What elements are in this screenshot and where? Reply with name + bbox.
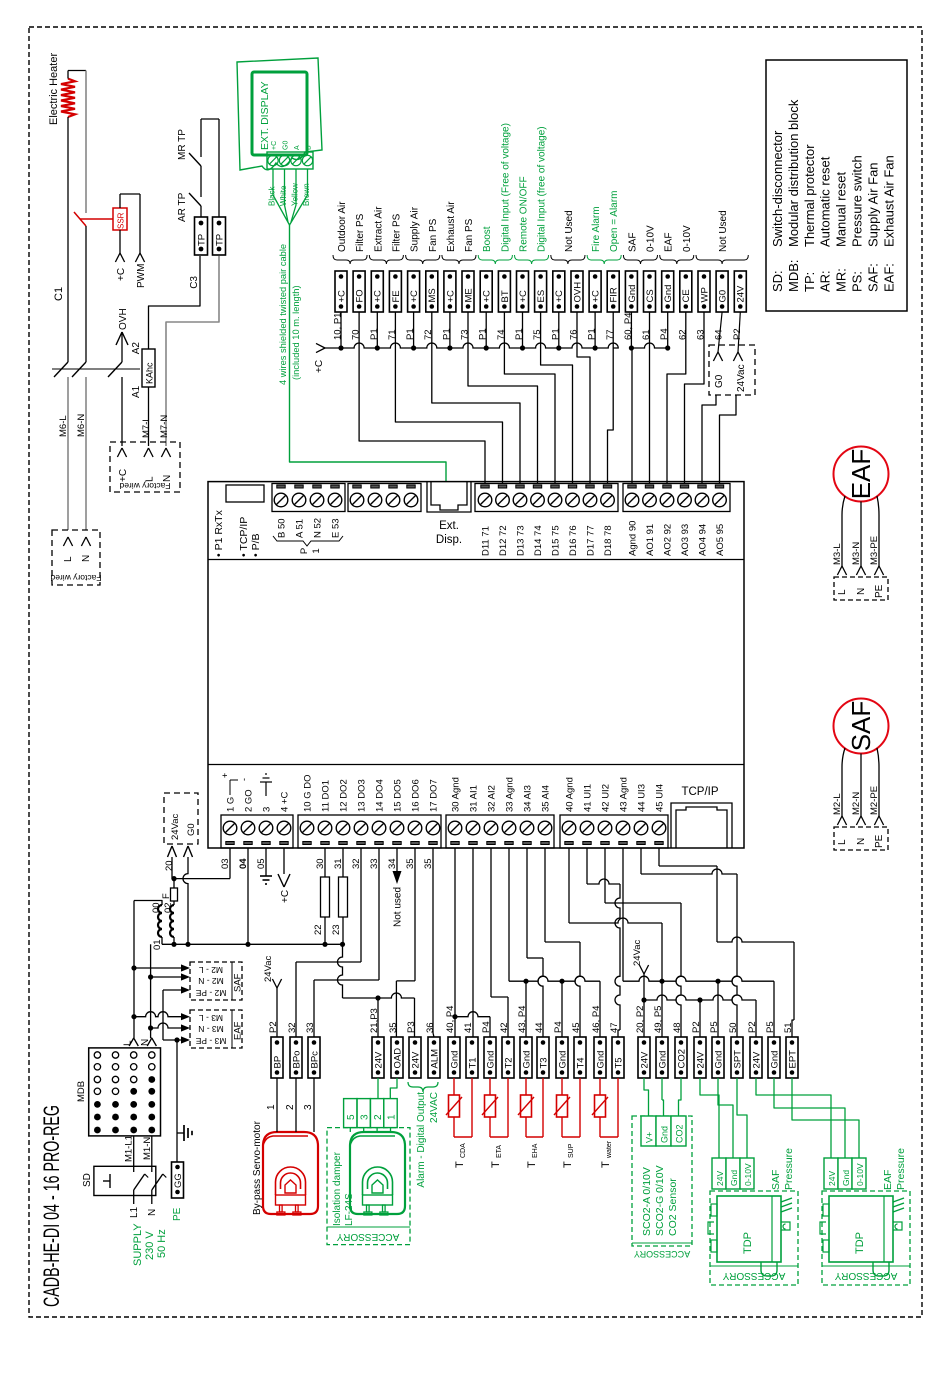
svg-text:CADB-HE-DI 04 - 16 PRO-REG: CADB-HE-DI 04 - 16 PRO-REG [39, 1105, 64, 1307]
svg-text:M3 - L: M3 - L [199, 1013, 223, 1023]
svg-text:32 AI2: 32 AI2 [487, 785, 498, 812]
svg-text:Pressure: Pressure [783, 1148, 795, 1190]
bottom terminal blocks [271, 1037, 283, 1078]
svg-text:-: - [239, 778, 249, 781]
svg-text:M7-N: M7-N [159, 415, 170, 438]
sensor wires to controller inputs [359, 312, 485, 483]
svg-text:TDP: TDP [742, 1232, 754, 1254]
svg-text:N: N [147, 1209, 158, 1216]
wire AI2 to T2 [490, 848, 492, 997]
svg-text:Gnd: Gnd [627, 285, 638, 303]
svg-text:Supply Air Fan: Supply Air Fan [865, 162, 880, 247]
AR TP switch [200, 206, 202, 217]
svg-text:ME: ME [463, 288, 474, 302]
contactor coil KAhc A1 A2 [142, 349, 155, 387]
svg-text:Thermal protector: Thermal protector [802, 144, 817, 247]
wire 32 DO3 to BPo [360, 848, 362, 962]
SAF connection dashed box [834, 827, 888, 850]
svg-text:T5: T5 [613, 1057, 624, 1068]
ground mark near 3 [265, 782, 267, 796]
svg-text:CO2: CO2 [675, 1124, 685, 1143]
svg-text:3: 3 [360, 1114, 371, 1120]
svg-text:ACCESSORY: ACCESSORY [834, 1270, 897, 1281]
svg-text:2: 2 [373, 1114, 384, 1120]
Ext Disp RJ connector [427, 482, 471, 512]
contactor blades [54, 362, 68, 377]
svg-text:61: 61 [641, 329, 652, 340]
wire 4+C arrow [283, 848, 285, 874]
bus 2GO [162, 943, 343, 945]
svg-text:• TCP/IP: • TCP/IP [238, 517, 250, 557]
svg-text:15 DO5: 15 DO5 [393, 779, 404, 812]
svg-text:Open = Alarm: Open = Alarm [609, 191, 620, 252]
svg-text:Not used: Not used [393, 887, 404, 927]
universal input strip 40-45 [560, 815, 668, 848]
svg-text:Gnd: Gnd [449, 1051, 460, 1069]
svg-text:+C: +C [445, 290, 456, 303]
svg-text:SAF:: SAF: [865, 263, 880, 292]
svg-text:M7-L: M7-L [141, 416, 152, 438]
svg-text:MR TP: MR TP [177, 129, 188, 160]
svg-text:B 50: B 50 [277, 518, 288, 538]
svg-text:C3: C3 [189, 276, 200, 289]
svg-text:MDB:: MDB: [786, 260, 801, 293]
svg-text:T: T [526, 1161, 538, 1168]
svg-text:Manual reset: Manual reset [834, 171, 849, 247]
svg-text:72: 72 [423, 329, 434, 340]
svg-text:GG: GG [173, 1173, 184, 1188]
svg-text:1: 1 [386, 1114, 397, 1120]
svg-text:(included 10 m. length): (included 10 m. length) [291, 285, 301, 380]
svg-text:33 Agnd: 33 Agnd [505, 777, 516, 812]
supply wire ends [133, 1196, 135, 1205]
svg-text:Fan PS: Fan PS [428, 218, 439, 252]
CO2 terminal cells [641, 1116, 656, 1146]
svg-text:63: 63 [696, 329, 707, 340]
svg-text:24V: 24V [736, 285, 747, 303]
analog output strip AO [623, 484, 730, 512]
PE wire to GG [176, 1040, 178, 1162]
svg-text:40 Agnd: 40 Agnd [565, 777, 576, 812]
svg-text:T: T [454, 1161, 466, 1168]
svg-text:M2-PE: M2-PE [869, 786, 880, 815]
svg-text:• P/B: • P/B [250, 533, 262, 557]
EAF pressure sensor TDP [822, 1191, 910, 1285]
bus 1G [174, 878, 230, 880]
status LED window [226, 485, 264, 502]
Gnd bus 60 P4 [631, 343, 667, 348]
svg-text:Gnd: Gnd [657, 1051, 668, 1069]
svg-text:4 +C: 4 +C [280, 792, 291, 812]
svg-text:EAF:: EAF: [881, 263, 896, 292]
svg-text:D15 75: D15 75 [551, 525, 562, 556]
SAF motor wires [842, 748, 845, 816]
wire AI1 to T1 [472, 848, 474, 1037]
svg-text:P2: P2 [732, 328, 743, 340]
svg-text:Factory wired: Factory wired [119, 481, 170, 491]
svg-text:EXT. DISPLAY: EXT. DISPLAY [259, 81, 271, 150]
svg-text:• P1 RxTx: • P1 RxTx [213, 509, 225, 557]
svg-text:TDP: TDP [854, 1232, 866, 1254]
svg-text:Gnd: Gnd [660, 1126, 670, 1143]
svg-text:3: 3 [262, 807, 273, 812]
svg-text:30 Agnd: 30 Agnd [451, 777, 462, 812]
svg-text:D12 72: D12 72 [498, 525, 509, 556]
svg-text:Gnd: Gnd [729, 1170, 739, 1186]
svg-text:M1-L1: M1-L1 [124, 1135, 135, 1162]
svg-text:P1: P1 [405, 328, 416, 340]
svg-text:T2: T2 [503, 1057, 514, 1068]
svg-text:SAF: SAF [846, 701, 876, 752]
GG terminal [172, 1162, 184, 1198]
svg-text:EAF: EAF [882, 1170, 894, 1190]
svg-text:M1-N: M1-N [142, 1137, 153, 1160]
isolation damper motor [350, 1132, 405, 1214]
ground symbol on PE [177, 1132, 184, 1134]
analog input strip 30-35 [446, 815, 554, 848]
svg-text:TP:: TP: [802, 272, 817, 292]
svg-text:Extract Air: Extract Air [373, 206, 384, 252]
svg-text:24V: 24V [827, 1171, 837, 1186]
svg-text:T3: T3 [538, 1057, 549, 1068]
svg-text:13 DO3: 13 DO3 [357, 779, 368, 812]
svg-text:Not Used: Not Used [564, 210, 575, 252]
svg-text:24Vac: 24Vac [736, 364, 747, 392]
svg-text:+C: +C [314, 360, 325, 373]
svg-text:M2-N: M2-N [851, 792, 862, 815]
svg-text:ACCESSORY: ACCESSORY [722, 1270, 785, 1281]
wire UI1 to T5 [586, 848, 588, 884]
svg-text:KAhc: KAhc [145, 362, 155, 384]
svg-text:2 GO: 2 GO [244, 789, 255, 812]
svg-text:P1: P1 [587, 328, 598, 340]
svg-text:35 AI4: 35 AI4 [541, 785, 552, 812]
svg-text:71: 71 [387, 329, 398, 340]
svg-text:SAF: SAF [233, 973, 244, 992]
svg-text:Pressure: Pressure [895, 1148, 907, 1190]
L N PE supply rails [133, 901, 135, 1039]
svg-text:EAF: EAF [846, 449, 876, 500]
wire 33 DO4 to BPc [378, 848, 380, 980]
damper wire cells 5 3 2 1 [344, 1099, 357, 1128]
svg-text:60, P4: 60, P4 [623, 313, 634, 340]
SSR switch blade [74, 212, 86, 226]
wire 35 DO6 to OAD [414, 848, 416, 981]
svg-text:Remote ON/OFF: Remote ON/OFF [519, 176, 530, 252]
svg-text:12 DO2: 12 DO2 [339, 779, 350, 812]
wire CS to AO1 [649, 312, 651, 483]
svg-text:N 52: N 52 [313, 518, 324, 538]
comm terminal strip 2 [348, 484, 421, 512]
Agnd 33 rail P4 [508, 848, 510, 981]
svg-text:V+: V+ [645, 1132, 655, 1143]
svg-text:Brown: Brown [302, 183, 311, 206]
svg-text:SD: SD [82, 1173, 93, 1187]
svg-text:4 wires shielded twisted pair: 4 wires shielded twisted pair cable [278, 244, 288, 385]
svg-text:T: T [600, 1161, 612, 1168]
factory wired box (heater aux) [110, 442, 180, 492]
svg-text:Fire Alarm: Fire Alarm [591, 206, 602, 252]
svg-text:20: 20 [164, 860, 175, 871]
TDP1 wires [700, 1078, 719, 1158]
svg-text:EAF: EAF [233, 1021, 244, 1040]
svg-text:24V: 24V [373, 1051, 384, 1069]
TP loop wire [201, 118, 219, 120]
svg-text:Gnd: Gnd [557, 1051, 568, 1069]
top row group labels [333, 255, 367, 264]
svg-text:T1: T1 [467, 1057, 478, 1068]
top sensor terminal blocks row [335, 271, 347, 312]
svg-text:Supply Air: Supply Air [410, 206, 421, 252]
svg-text:Gnd: Gnd [663, 285, 674, 303]
svg-text:Digital Input (Free of voltage: Digital Input (Free of voltage) [500, 123, 511, 252]
SSR control wires +C PWM [119, 194, 121, 208]
svg-text:SD:: SD: [770, 270, 785, 292]
svg-text:Gnd: Gnd [521, 1051, 532, 1069]
svg-text:PS:: PS: [850, 271, 865, 292]
svg-text:M6-L: M6-L [58, 415, 69, 437]
svg-text:Boost: Boost [482, 226, 493, 252]
svg-text:Isolation damper: Isolation damper [332, 1151, 343, 1226]
svg-text:02: 02 [163, 902, 174, 913]
svg-text:AO3 93: AO3 93 [680, 524, 691, 556]
svg-text:73: 73 [460, 329, 471, 340]
svg-text:P3: P3 [406, 1021, 417, 1033]
OVH arrow [121, 332, 123, 362]
svg-text:A 51: A 51 [295, 519, 306, 538]
svg-text:230 V: 230 V [144, 1231, 156, 1260]
damper wires from 24V OAD [377, 1078, 379, 1099]
svg-text:74: 74 [496, 329, 507, 340]
24Vac rail P3 from bus [338, 944, 343, 998]
svg-text:MS: MS [427, 288, 438, 302]
svg-text:M3-N: M3-N [851, 542, 862, 565]
L N labels into MDB [129, 1038, 134, 1046]
svg-text:ACCESSORY: ACCESSORY [336, 1231, 399, 1242]
svg-text:OVH: OVH [572, 282, 583, 303]
svg-text:0-10V: 0-10V [855, 1163, 865, 1186]
svg-text:3: 3 [303, 1104, 314, 1110]
svg-text:AR TP: AR TP [177, 192, 188, 222]
svg-text:P1: P1 [369, 328, 380, 340]
svg-text:AO2 92: AO2 92 [663, 524, 674, 556]
svg-text:50 Hz: 50 Hz [156, 1229, 168, 1258]
svg-text:P1: P1 [478, 328, 489, 340]
svg-text:G0: G0 [283, 141, 290, 150]
svg-text:B: B [306, 145, 313, 150]
svg-text:31 AI1: 31 AI1 [469, 785, 480, 812]
svg-text:ES: ES [536, 290, 547, 303]
svg-text:+: + [220, 773, 230, 778]
svg-text:P1: P1 [550, 328, 561, 340]
svg-text:+C: +C [482, 290, 493, 303]
svg-text:TP: TP [215, 234, 226, 246]
svg-text:AO4 94: AO4 94 [698, 524, 709, 556]
svg-text:24Vac: 24Vac [170, 814, 181, 840]
svg-text:AR:: AR: [818, 270, 833, 292]
svg-text:24V: 24V [751, 1051, 762, 1069]
svg-text:TP: TP [197, 234, 208, 246]
svg-text:M6-N: M6-N [76, 414, 87, 437]
svg-text:D17 77: D17 77 [586, 525, 597, 556]
svg-text:L: L [837, 589, 848, 595]
coil 00 [158, 905, 162, 937]
+C bus wire [340, 312, 342, 348]
EAF connection dashed box [834, 577, 888, 600]
svg-text:A1: A1 [131, 385, 142, 398]
svg-text:Electric Heater: Electric Heater [48, 53, 60, 125]
EAF fan circle [834, 447, 889, 502]
coil 02 [170, 905, 174, 937]
svg-text:N: N [140, 1039, 151, 1046]
svg-text:01: 01 [152, 939, 163, 950]
svg-text:0-10V: 0-10V [646, 225, 657, 252]
svg-text:43 Agnd: 43 Agnd [619, 777, 630, 812]
svg-text:0-10V: 0-10V [682, 225, 693, 252]
wire UI4 to EPT [658, 848, 660, 866]
svg-text:CS: CS [645, 289, 656, 302]
svg-text:+C: +C [116, 268, 127, 281]
digital input strip D11-D18 [475, 484, 618, 512]
svg-text:SPT: SPT [732, 1050, 743, 1069]
svg-text:OAD: OAD [392, 1048, 403, 1069]
svg-text:Gnd: Gnd [769, 1051, 780, 1069]
svg-text:C1: C1 [53, 287, 65, 301]
resistor 22 [324, 848, 326, 877]
svg-text:35: 35 [388, 1022, 399, 1033]
svg-text:2: 2 [285, 1104, 296, 1110]
svg-text:Pressure switch: Pressure switch [850, 155, 865, 247]
svg-text:EHA: EHA [532, 1143, 539, 1158]
svg-text:D14 74: D14 74 [533, 525, 544, 556]
svg-text:WP: WP [699, 287, 710, 302]
svg-text:42 UI2: 42 UI2 [601, 784, 612, 812]
legend box [766, 60, 907, 311]
wire WP to AO3 [685, 312, 705, 483]
svg-text:SUPPLY: SUPPLY [132, 1223, 144, 1266]
svg-text:N: N [856, 838, 867, 845]
svg-text:P1: P1 [441, 328, 452, 340]
EAF supply dashed box [190, 1010, 242, 1048]
svg-text:L: L [837, 839, 848, 845]
svg-text:34 AI3: 34 AI3 [523, 785, 534, 812]
CO2 wires [644, 1078, 649, 1116]
SAF supply dashed box [190, 962, 242, 1000]
svg-text:M3-L: M3-L [832, 543, 843, 565]
svg-text:N: N [162, 475, 173, 482]
svg-text:ALM: ALM [429, 1049, 440, 1069]
wire blade to +C factory box [121, 377, 123, 446]
svg-text:BT: BT [500, 290, 511, 302]
svg-text:D11 71: D11 71 [481, 526, 492, 556]
svg-text:SCO2-G 0/10V: SCO2-G 0/10V [654, 1165, 666, 1236]
svg-text:+C: +C [409, 290, 420, 303]
svg-text:24V: 24V [715, 1171, 725, 1186]
svg-text:MR:: MR: [834, 268, 849, 292]
digital output strip 10-17 [298, 815, 441, 848]
svg-text:24V: 24V [410, 1051, 421, 1069]
G0 24Vac dashed box [709, 345, 755, 395]
svg-text:Factory wired: Factory wired [50, 573, 101, 583]
svg-text:+C: +C [554, 290, 565, 303]
wire 05 ground [265, 848, 267, 876]
svg-text:10, P1: 10, P1 [333, 313, 344, 340]
wire CE to AO2 [667, 312, 686, 483]
svg-text:0-10V: 0-10V [743, 1163, 753, 1186]
gray wire TP to N [166, 256, 219, 446]
svg-text:L1: L1 [129, 1206, 140, 1218]
svg-text:+C: +C [336, 290, 347, 303]
TDP2 wires [756, 1078, 831, 1158]
svg-text:M2 - PE: M2 - PE [195, 988, 226, 998]
svg-text:36: 36 [425, 1022, 436, 1033]
wire UI3 to SPT [640, 848, 642, 874]
svg-text:G0: G0 [718, 290, 729, 303]
svg-text:41 UI1: 41 UI1 [583, 784, 594, 812]
alarm output brace [408, 1082, 438, 1092]
svg-text:Gnd: Gnd [713, 1051, 724, 1069]
MDB to SD wires [133, 1136, 135, 1166]
svg-text:F: F [161, 893, 172, 899]
svg-text:FIR: FIR [609, 287, 620, 302]
svg-text:E 53: E 53 [331, 518, 342, 538]
svg-text:44 UI3: 44 UI3 [637, 784, 648, 812]
svg-text:1: 1 [311, 548, 322, 553]
svg-text:ETA: ETA [496, 1145, 503, 1158]
wire UI2 to CO2 [604, 848, 606, 903]
svg-text:Alarm - Digital Output: Alarm - Digital Output [416, 1092, 427, 1188]
svg-text:77: 77 [605, 329, 616, 340]
svg-text:24V: 24V [695, 1051, 706, 1069]
controller main box [208, 482, 744, 848]
svg-text:Agnd 90: Agnd 90 [628, 521, 639, 556]
wire coil A1 to factory box [148, 387, 150, 446]
svg-text:Exhaust Air: Exhaust Air [446, 201, 457, 252]
svg-text:Automatic reset: Automatic reset [818, 156, 833, 247]
svg-text:76: 76 [569, 329, 580, 340]
temperature sensors NTC [453, 1078, 455, 1095]
svg-text:PWM: PWM [136, 264, 147, 288]
svg-text:OVH: OVH [118, 308, 129, 330]
svg-text:M2 - N: M2 - N [198, 976, 224, 986]
comm terminal strip P1 [272, 484, 345, 512]
svg-text:Not Used: Not Used [718, 210, 729, 252]
svg-text:+C: +C [518, 290, 529, 303]
svg-text:+C: +C [118, 469, 129, 482]
svg-text:Filter PS: Filter PS [391, 213, 402, 252]
svg-text:A2: A2 [131, 342, 142, 355]
svg-text:P4: P4 [659, 328, 670, 340]
display cable wire [290, 225, 447, 482]
svg-text:LF-24S: LF-24S [344, 1193, 355, 1226]
svg-text:D18 78: D18 78 [603, 525, 614, 556]
servo wires 1 2 3 [276, 1078, 278, 1132]
svg-text:Gnd: Gnd [485, 1051, 496, 1069]
svg-text:14 DO4: 14 DO4 [375, 779, 386, 812]
svg-text:SSR: SSR [117, 212, 126, 229]
svg-text:24VAC: 24VAC [429, 1092, 440, 1123]
svg-text:MDB: MDB [76, 1081, 87, 1102]
svg-text:1: 1 [266, 1104, 277, 1110]
svg-text:M2-L: M2-L [832, 793, 843, 815]
fuse F [173, 879, 175, 888]
svg-text:D16 76: D16 76 [568, 525, 579, 556]
svg-text:70: 70 [351, 329, 362, 340]
SAF fan circle [834, 699, 889, 754]
svg-text:FO: FO [355, 289, 366, 302]
svg-text:D13 73: D13 73 [516, 525, 527, 556]
svg-text:ACCESSORY: ACCESSORY [634, 1249, 690, 1259]
